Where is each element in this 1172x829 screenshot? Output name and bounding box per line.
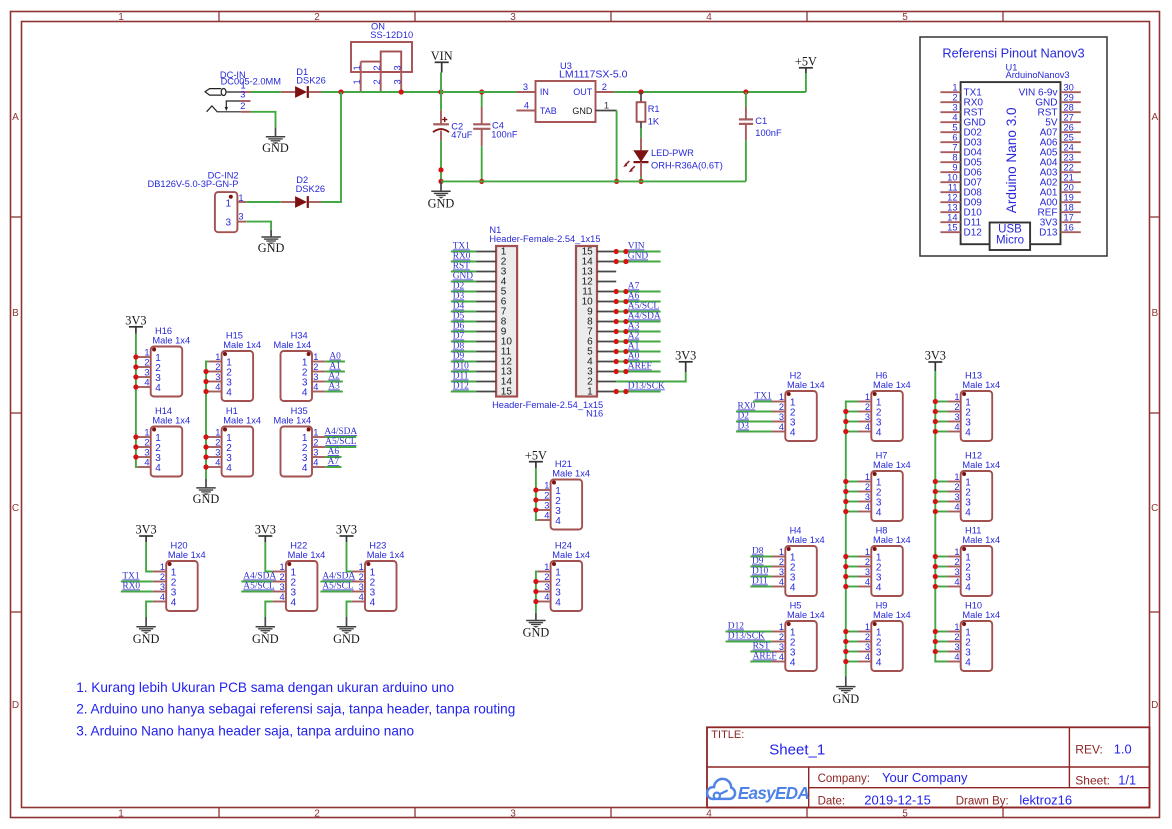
power flag 3V3 above H20 bbox=[136, 523, 157, 542]
svg-text:4: 4 bbox=[555, 516, 561, 527]
svg-text:Male 1x4: Male 1x4 bbox=[273, 416, 311, 426]
header H20 Male 1x4 bbox=[153, 540, 206, 611]
svg-text:47uF: 47uF bbox=[451, 130, 473, 140]
svg-text:4: 4 bbox=[779, 652, 784, 662]
svg-text:1: 1 bbox=[587, 387, 593, 398]
wire net GND to N1 pin 4 bbox=[451, 272, 476, 282]
svg-text:2: 2 bbox=[313, 362, 318, 372]
svg-text:1: 1 bbox=[604, 101, 609, 112]
svg-text:Male 1x4: Male 1x4 bbox=[168, 550, 206, 560]
svg-text:3: 3 bbox=[865, 642, 870, 652]
svg-text:1: 1 bbox=[865, 547, 870, 557]
wire net A6 from N16 bbox=[614, 292, 661, 305]
svg-text:4: 4 bbox=[226, 463, 232, 474]
svg-text:H16: H16 bbox=[155, 326, 172, 336]
svg-text:2: 2 bbox=[313, 438, 318, 448]
node junction C4 top bbox=[479, 89, 484, 94]
wire H23 pin4 to GND bbox=[347, 602, 352, 627]
svg-text:2: 2 bbox=[215, 438, 220, 448]
svg-text:3: 3 bbox=[865, 567, 870, 577]
svg-text:2: 2 bbox=[954, 632, 959, 642]
svg-text:2: 2 bbox=[952, 93, 957, 103]
svg-text:3: 3 bbox=[865, 412, 870, 422]
wire net D6 to N1 pin 9 bbox=[451, 322, 476, 332]
svg-text:REV:: REV: bbox=[1075, 743, 1103, 757]
svg-text:4: 4 bbox=[790, 428, 796, 439]
wire +5V bus H21 bbox=[533, 468, 538, 520]
wire net GND from N16 bbox=[614, 252, 661, 265]
svg-text:LM1117SX-5.0: LM1117SX-5.0 bbox=[559, 69, 628, 81]
svg-text:3: 3 bbox=[954, 567, 959, 577]
svg-text:H34: H34 bbox=[291, 330, 308, 340]
svg-text:3. Arduino Nano hanya header s: 3. Arduino Nano hanya header saja, tanpa… bbox=[76, 723, 414, 738]
wires nets TX1/RX0 at H20 bbox=[121, 572, 153, 592]
svg-text:+5V: +5V bbox=[795, 54, 817, 68]
svg-text:Arduino Nano 3.0: Arduino Nano 3.0 bbox=[1004, 107, 1019, 213]
svg-text:1: 1 bbox=[352, 65, 362, 70]
svg-text:2: 2 bbox=[314, 12, 320, 23]
svg-text:IN: IN bbox=[540, 87, 549, 97]
svg-text:10: 10 bbox=[947, 173, 957, 183]
svg-text:1: 1 bbox=[225, 199, 231, 210]
svg-text:Date:: Date: bbox=[818, 795, 846, 807]
header H22 Male 1x4 bbox=[273, 540, 326, 611]
svg-text:4: 4 bbox=[226, 388, 232, 399]
svg-text:3: 3 bbox=[954, 642, 959, 652]
svg-text:4: 4 bbox=[155, 383, 161, 394]
svg-text:Male 1x4: Male 1x4 bbox=[152, 416, 190, 426]
svg-text:3: 3 bbox=[510, 808, 516, 819]
svg-text:4: 4 bbox=[215, 382, 220, 392]
svg-text:H10: H10 bbox=[965, 600, 982, 610]
svg-text:3: 3 bbox=[952, 103, 957, 113]
svg-text:H13: H13 bbox=[965, 370, 982, 380]
power flag +5V above H21 bbox=[525, 448, 547, 468]
svg-text:4: 4 bbox=[965, 508, 971, 519]
svg-text:3V3: 3V3 bbox=[125, 314, 146, 328]
wire net TX1 to N1 pin 1 bbox=[451, 242, 476, 252]
diode D2 DSK26 bbox=[281, 175, 325, 208]
svg-text:Micro: Micro bbox=[996, 235, 1024, 247]
svg-text:20: 20 bbox=[1064, 183, 1074, 193]
svg-text:4: 4 bbox=[954, 502, 959, 512]
svg-text:H7: H7 bbox=[876, 450, 888, 460]
svg-text:30: 30 bbox=[1064, 83, 1074, 93]
svg-text:Header-Female-2.54_1x15: Header-Female-2.54_1x15 bbox=[489, 234, 600, 244]
svg-text:H20: H20 bbox=[171, 540, 188, 550]
ground GND below H24 bbox=[523, 621, 550, 640]
svg-text:15: 15 bbox=[501, 387, 513, 398]
svg-text:4: 4 bbox=[965, 658, 971, 669]
svg-text:1: 1 bbox=[952, 83, 957, 93]
svg-text:1: 1 bbox=[160, 562, 165, 572]
note text line 3 bbox=[76, 723, 414, 738]
wire net D2 to N1 pin 5 bbox=[451, 282, 476, 292]
svg-text:4: 4 bbox=[876, 428, 882, 439]
svg-text:2: 2 bbox=[779, 557, 784, 567]
svg-text:Male 1x4: Male 1x4 bbox=[962, 460, 1000, 470]
svg-text:A: A bbox=[1151, 112, 1158, 123]
wire net D11 to N1 pin 14 bbox=[451, 372, 476, 382]
svg-text:DC005-2.0MM: DC005-2.0MM bbox=[221, 77, 281, 87]
svg-text:D: D bbox=[1151, 700, 1158, 711]
logo EasyEDA bbox=[707, 779, 809, 803]
svg-text:Male 1x4: Male 1x4 bbox=[273, 340, 311, 350]
svg-text:D13: D13 bbox=[1039, 227, 1058, 238]
LED LED-PWR ORH-R36A(0.6T) bbox=[623, 138, 723, 182]
wire switch to VIN node bbox=[361, 91, 441, 93]
node junction switch pin3 bbox=[399, 89, 404, 94]
svg-text:EasyEDA: EasyEDA bbox=[738, 783, 810, 803]
wire net AREF from N16 bbox=[614, 362, 661, 375]
svg-text:29: 29 bbox=[1064, 93, 1074, 103]
svg-text:H21: H21 bbox=[555, 459, 572, 469]
svg-text:2: 2 bbox=[779, 402, 784, 412]
svg-text:H4: H4 bbox=[790, 525, 802, 535]
node junction LED rail bbox=[638, 179, 643, 184]
svg-text:24: 24 bbox=[1064, 143, 1074, 153]
svg-text:3: 3 bbox=[240, 89, 245, 99]
power flag 3V3 above H16 bbox=[125, 314, 146, 334]
svg-text:2: 2 bbox=[372, 65, 382, 70]
svg-text:H1: H1 bbox=[226, 406, 238, 416]
connector DC-IN2 DB126V-5.0-3P-GN-P bbox=[148, 171, 247, 233]
svg-text:H35: H35 bbox=[291, 406, 308, 416]
wire net D13/SCK from N16 bbox=[614, 382, 665, 395]
svg-text:4: 4 bbox=[876, 508, 882, 519]
svg-text:Male 1x4: Male 1x4 bbox=[552, 469, 590, 479]
svg-text:B: B bbox=[1151, 308, 1158, 319]
wire net RST to N1 pin 3 bbox=[451, 262, 476, 272]
svg-text:Male 1x4: Male 1x4 bbox=[787, 535, 825, 545]
wire 3V3 to H22 pin1 bbox=[265, 542, 272, 572]
svg-text:GND: GND bbox=[832, 692, 859, 706]
svg-text:3: 3 bbox=[215, 372, 220, 382]
wire D2 up to D1 node bbox=[321, 92, 341, 202]
svg-text:1: 1 bbox=[215, 428, 220, 438]
svg-text:5: 5 bbox=[902, 12, 908, 23]
svg-text:Male 1x4: Male 1x4 bbox=[223, 416, 261, 426]
svg-text:1: 1 bbox=[865, 472, 870, 482]
svg-text:2: 2 bbox=[359, 572, 364, 582]
svg-text:28: 28 bbox=[1064, 103, 1074, 113]
svg-text:2: 2 bbox=[865, 557, 870, 567]
wire net VIN from N16 bbox=[614, 242, 661, 255]
svg-text:4: 4 bbox=[706, 808, 712, 819]
svg-text:2: 2 bbox=[144, 438, 149, 448]
svg-text:D12: D12 bbox=[964, 227, 983, 238]
svg-text:3: 3 bbox=[510, 12, 516, 23]
power flag +5V top bbox=[795, 54, 817, 92]
wire net D10 to N1 pin 13 bbox=[451, 362, 476, 372]
svg-text:4: 4 bbox=[144, 378, 149, 388]
svg-text:SS-12D10: SS-12D10 bbox=[370, 30, 413, 40]
node junction VIN/C2 bbox=[438, 89, 443, 94]
svg-text:19: 19 bbox=[1064, 193, 1074, 203]
svg-text:1: 1 bbox=[280, 562, 285, 572]
svg-text:2: 2 bbox=[215, 362, 220, 372]
svg-text:3V3: 3V3 bbox=[675, 349, 696, 363]
svg-text:6: 6 bbox=[952, 133, 957, 143]
svg-text:13: 13 bbox=[947, 203, 957, 213]
svg-text:1. Kurang lebih Ukuran PCB sam: 1. Kurang lebih Ukuran PCB sama dengan u… bbox=[76, 680, 454, 695]
svg-text:GND: GND bbox=[258, 241, 285, 255]
wire DC-IN2 pin3 to GND bbox=[246, 222, 271, 237]
svg-text:4: 4 bbox=[160, 592, 165, 602]
svg-text:4: 4 bbox=[144, 458, 149, 468]
svg-text:H23: H23 bbox=[369, 540, 386, 550]
svg-text:4: 4 bbox=[706, 12, 712, 23]
wire net RX0 to N1 pin 2 bbox=[451, 252, 476, 262]
svg-text:3: 3 bbox=[144, 368, 149, 378]
svg-text:4: 4 bbox=[313, 382, 318, 392]
svg-text:5: 5 bbox=[902, 808, 908, 819]
svg-text:2: 2 bbox=[954, 482, 959, 492]
svg-text:Male 1x4: Male 1x4 bbox=[152, 336, 190, 346]
svg-text:2: 2 bbox=[865, 632, 870, 642]
svg-text:DSK26: DSK26 bbox=[296, 75, 325, 85]
svg-text:H2: H2 bbox=[790, 370, 802, 380]
svg-text:4: 4 bbox=[876, 583, 882, 594]
svg-text:4: 4 bbox=[313, 458, 318, 468]
header H15 Male 1x4 bbox=[208, 330, 261, 401]
svg-text:2019-12-15: 2019-12-15 bbox=[864, 792, 931, 807]
wire center bus H6-H9 to GND bbox=[843, 402, 858, 687]
node junction C2 lower bbox=[438, 167, 443, 172]
power flag 3V3 above H13 bbox=[925, 349, 946, 371]
svg-text:Male 1x4: Male 1x4 bbox=[962, 610, 1000, 620]
svg-text:H11: H11 bbox=[965, 525, 981, 535]
wire 3V3 bus H16/H14 bbox=[133, 334, 138, 468]
wires nets D8-D11 at H4 bbox=[750, 547, 772, 587]
capacitor C2 47uF bbox=[433, 92, 473, 181]
wire 3V3 to H23 pin1 bbox=[347, 542, 352, 572]
svg-text:11: 11 bbox=[948, 183, 958, 193]
svg-text:26: 26 bbox=[1064, 123, 1074, 133]
svg-text:H24: H24 bbox=[555, 540, 572, 550]
resistor R1 1K bbox=[637, 92, 660, 128]
svg-text:1: 1 bbox=[779, 392, 784, 402]
header H9 Male 1x4 bbox=[858, 600, 911, 671]
svg-text:1: 1 bbox=[779, 622, 784, 632]
svg-text:3: 3 bbox=[954, 412, 959, 422]
svg-text:3: 3 bbox=[779, 412, 784, 422]
svg-text:GND: GND bbox=[262, 141, 289, 155]
svg-text:4: 4 bbox=[171, 598, 177, 609]
svg-text:Male 1x4: Male 1x4 bbox=[873, 460, 911, 470]
svg-text:1: 1 bbox=[118, 808, 124, 819]
svg-text:2: 2 bbox=[954, 402, 959, 412]
header H24 Male 1x4 bbox=[537, 540, 590, 611]
svg-text:ORH-R36A(0.6T): ORH-R36A(0.6T) bbox=[651, 160, 723, 170]
svg-text:17: 17 bbox=[1064, 213, 1074, 223]
wire H24 bus to GND bbox=[533, 572, 538, 621]
svg-text:3V3: 3V3 bbox=[255, 523, 276, 537]
svg-text:Male 1x4: Male 1x4 bbox=[962, 535, 1000, 545]
svg-text:4: 4 bbox=[865, 502, 870, 512]
wire ground rail bbox=[441, 180, 746, 182]
svg-text:3: 3 bbox=[779, 642, 784, 652]
wire net D12 to N1 pin 15 bbox=[451, 382, 476, 392]
svg-text:1: 1 bbox=[215, 352, 220, 362]
svg-text:2: 2 bbox=[144, 358, 149, 368]
title block bbox=[707, 727, 1150, 807]
ground GND below H1 bbox=[193, 488, 220, 506]
svg-text:1: 1 bbox=[865, 392, 870, 402]
svg-text:Male 1x4: Male 1x4 bbox=[787, 610, 825, 620]
wire N16 pin2 to 3V3 bbox=[616, 362, 686, 382]
svg-text:DB126V-5.0-3P-GN-P: DB126V-5.0-3P-GN-P bbox=[148, 179, 239, 189]
svg-text:3: 3 bbox=[144, 448, 149, 458]
svg-text:4: 4 bbox=[544, 592, 549, 602]
svg-text:1K: 1K bbox=[648, 117, 660, 127]
svg-text:18: 18 bbox=[1064, 203, 1074, 213]
svg-text:GND: GND bbox=[193, 492, 220, 506]
svg-text:1: 1 bbox=[954, 622, 959, 632]
svg-text:Male 1x4: Male 1x4 bbox=[962, 380, 1000, 390]
header H13 Male 1x4 bbox=[947, 370, 1000, 441]
svg-text:H5: H5 bbox=[790, 600, 802, 610]
svg-text:2: 2 bbox=[779, 632, 784, 642]
wire DC-IN pin2 to GND bbox=[251, 112, 276, 137]
svg-text:23: 23 bbox=[1064, 153, 1074, 163]
svg-text:1: 1 bbox=[352, 79, 362, 84]
svg-text:1: 1 bbox=[544, 562, 549, 572]
svg-text:1: 1 bbox=[865, 622, 870, 632]
svg-text:100nF: 100nF bbox=[755, 128, 782, 138]
svg-text:4: 4 bbox=[370, 598, 376, 609]
svg-text:2: 2 bbox=[954, 557, 959, 567]
svg-text:1: 1 bbox=[144, 428, 149, 438]
wire net A7 from N16 bbox=[614, 282, 661, 295]
svg-text:4: 4 bbox=[954, 577, 959, 587]
ground GND at DC-IN2 bbox=[258, 237, 285, 255]
svg-text:H8: H8 bbox=[876, 525, 888, 535]
svg-text:H6: H6 bbox=[876, 370, 888, 380]
svg-text:4: 4 bbox=[965, 583, 971, 594]
svg-text:1.0: 1.0 bbox=[1114, 742, 1132, 757]
svg-text:4: 4 bbox=[215, 458, 220, 468]
header H16 Male 1x4 bbox=[137, 326, 190, 397]
svg-text:3: 3 bbox=[215, 448, 220, 458]
svg-text:Company:: Company: bbox=[818, 773, 870, 785]
svg-text:DSK26: DSK26 bbox=[296, 184, 325, 194]
wire H22 pin4 to GND bbox=[265, 602, 272, 627]
svg-text:4: 4 bbox=[555, 598, 561, 609]
header H34 Male 1x4 bbox=[273, 330, 325, 401]
wire net A5/SCL from N16 bbox=[614, 302, 661, 315]
svg-text:3: 3 bbox=[779, 567, 784, 577]
connector DC-IN (DC005-2.0MM) bbox=[205, 70, 281, 112]
svg-text:Male 1x4: Male 1x4 bbox=[787, 380, 825, 390]
svg-text:H15: H15 bbox=[226, 330, 243, 340]
svg-text:2: 2 bbox=[865, 402, 870, 412]
svg-text:GND: GND bbox=[333, 632, 360, 646]
svg-text:4: 4 bbox=[954, 652, 959, 662]
svg-text:GND: GND bbox=[133, 632, 160, 646]
ground GND below H22 bbox=[252, 627, 279, 646]
wire net D8 to N1 pin 11 bbox=[451, 342, 476, 352]
svg-text:LED-PWR: LED-PWR bbox=[651, 148, 694, 158]
svg-text:2: 2 bbox=[314, 808, 320, 819]
power flag 3V3 above H23 bbox=[336, 523, 357, 542]
svg-text:22: 22 bbox=[1064, 163, 1074, 173]
svg-text:3: 3 bbox=[544, 501, 549, 511]
svg-text:4: 4 bbox=[779, 422, 784, 432]
svg-text:4: 4 bbox=[790, 658, 796, 669]
svg-text:Referensi Pinout Nanov3: Referensi Pinout Nanov3 bbox=[942, 45, 1084, 60]
svg-text:1: 1 bbox=[144, 348, 149, 358]
svg-text:4: 4 bbox=[876, 658, 882, 669]
header H23 Male 1x4 bbox=[352, 540, 405, 611]
svg-text:4: 4 bbox=[952, 113, 957, 123]
wire 3V3 to H20 pin1 bbox=[146, 542, 153, 572]
svg-text:GND: GND bbox=[523, 625, 550, 639]
svg-text:2: 2 bbox=[280, 572, 285, 582]
svg-text:7: 7 bbox=[952, 143, 957, 153]
svg-text:4: 4 bbox=[965, 428, 971, 439]
node junction U3 gnd rail bbox=[614, 179, 619, 184]
svg-text:H9: H9 bbox=[876, 600, 888, 610]
svg-text:+5V: +5V bbox=[525, 448, 547, 462]
svg-text:4: 4 bbox=[291, 598, 297, 609]
svg-text:8: 8 bbox=[952, 153, 957, 163]
wire net D5 to N1 pin 8 bbox=[451, 312, 476, 322]
svg-text:VIN: VIN bbox=[431, 49, 453, 63]
wire DC-IN to D1 bbox=[251, 91, 281, 93]
svg-text:1: 1 bbox=[359, 562, 364, 572]
diode D1 DSK26 bbox=[281, 67, 326, 98]
svg-text:2: 2 bbox=[544, 491, 549, 501]
svg-text:TAB: TAB bbox=[540, 106, 557, 116]
svg-text:4: 4 bbox=[790, 583, 796, 594]
svg-text:D: D bbox=[12, 700, 19, 711]
wires nets D12,D13/SCK,RST,AREF at H5 bbox=[726, 622, 777, 662]
header H11 Male 1x4 bbox=[947, 525, 1000, 596]
switch ON SS-12D10 bbox=[351, 22, 413, 93]
svg-text:27: 27 bbox=[1064, 113, 1074, 123]
wire DC-IN2 to D2 bbox=[246, 201, 281, 203]
svg-text:H12: H12 bbox=[965, 450, 982, 460]
svg-text:H22: H22 bbox=[290, 540, 307, 550]
svg-text:1: 1 bbox=[313, 352, 318, 362]
header H2 Male 1x4 bbox=[772, 370, 825, 441]
svg-text:1: 1 bbox=[544, 481, 549, 491]
wire right bus H13-H10 bbox=[933, 371, 948, 662]
svg-text:14: 14 bbox=[947, 213, 957, 223]
svg-text:2: 2 bbox=[602, 82, 607, 92]
ground GND below H9 bbox=[832, 687, 859, 706]
svg-text:3: 3 bbox=[313, 372, 318, 382]
svg-text:21: 21 bbox=[1064, 173, 1074, 183]
svg-text:4: 4 bbox=[865, 652, 870, 662]
svg-text:100nF: 100nF bbox=[491, 129, 518, 139]
wire net D3 to N1 pin 6 bbox=[451, 292, 476, 302]
svg-text:3: 3 bbox=[865, 492, 870, 502]
svg-text:1/1: 1/1 bbox=[1118, 772, 1136, 787]
svg-text:Male 1x4: Male 1x4 bbox=[873, 535, 911, 545]
svg-text:2: 2 bbox=[160, 572, 165, 582]
ground GND below H23 bbox=[333, 627, 360, 646]
power flag VIN bbox=[431, 49, 453, 92]
svg-text:Male 1x4: Male 1x4 bbox=[873, 610, 911, 620]
node junction D1/D2 bbox=[338, 89, 343, 94]
svg-text:Sheet:: Sheet: bbox=[1075, 773, 1110, 787]
svg-text:Sheet_1: Sheet_1 bbox=[769, 741, 825, 758]
header H21 Male 1x4 bbox=[537, 459, 590, 530]
svg-text:Your Company: Your Company bbox=[882, 770, 968, 785]
svg-text:3: 3 bbox=[523, 82, 528, 92]
